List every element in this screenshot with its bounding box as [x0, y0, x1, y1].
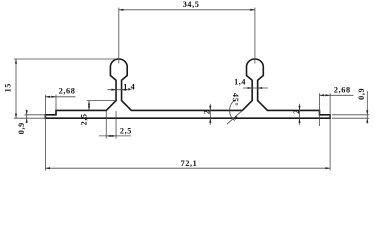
arrow 2,5 vertical top — [88, 101, 90, 106]
arrow 2 right top (outside) — [298, 106, 300, 111]
dim 34,5 extension lines — [118, 8, 120, 64]
svg-text:34,5: 34,5 — [183, 0, 200, 9]
arrow 1,4 left b (outside) — [122, 89, 127, 91]
arrow 2,5 vertical bottom — [88, 106, 90, 111]
arrow 45deg arc end — [235, 116, 238, 121]
svg-text:72,1: 72,1 — [181, 159, 198, 168]
svg-text:2,68: 2,68 — [59, 86, 76, 95]
svg-text:2,5: 2,5 — [120, 127, 132, 136]
arrow 2 left top (outside) — [209, 106, 211, 111]
profile outline (T-bar cross-section with two bulb stems) — [45, 59, 330, 118]
arrow 1,4 left a (outside) — [111, 89, 116, 91]
arrow 0,9 right bottom (outside) — [366, 118, 368, 123]
dim 2,68 left line — [45, 96, 75, 98]
arrow 34,5 right — [250, 9, 255, 11]
svg-text:0,9: 0,9 — [357, 88, 366, 100]
dim 15 line — [15, 59, 17, 118]
dim 34,5 line — [119, 9, 255, 11]
svg-text:1,4: 1,4 — [234, 78, 246, 87]
arrow 1,4 right b (outside) — [258, 87, 263, 89]
arrow 1,4 right a (outside) — [248, 87, 253, 89]
dim 2 right line — [299, 104, 301, 125]
arrow 15 bottom — [15, 114, 17, 119]
dim 2 left line — [209, 104, 211, 125]
dim 2,5 horizontal line — [99, 135, 131, 137]
dim 2,5 horizontal extension lines — [105, 111, 107, 139]
arrow 15 top — [15, 59, 17, 64]
dim 2,5 vertical line — [88, 101, 90, 111]
dim 15 extension lines — [14, 58, 117, 60]
arrow 72,1 left — [45, 167, 50, 169]
dim 45deg arc — [230, 100, 235, 121]
arrow 0,9 left bottom (outside) — [26, 118, 28, 123]
dim 72,1 extension lines — [44, 95, 46, 171]
dim 0,9 right extension lines — [332, 114, 369, 116]
dim 2,68 right extension lines — [319, 93, 321, 126]
arrow 2,68 left b — [51, 96, 56, 98]
arrow 2,68 right b — [326, 94, 331, 96]
arrow 34,5 left — [119, 9, 124, 11]
dim 0,9 left line — [26, 110, 28, 124]
svg-text:15: 15 — [4, 83, 13, 92]
arrow 0,9 right top (outside) — [366, 110, 368, 115]
dim 72,1 line — [45, 167, 330, 169]
svg-text:2,68: 2,68 — [334, 86, 351, 95]
svg-text:2: 2 — [292, 109, 301, 114]
dim 0,9 right line — [366, 91, 368, 124]
arrow 0,9 left top (outside) — [26, 110, 28, 115]
dim 45deg extended diagonal — [227, 110, 242, 124]
svg-text:45°: 45° — [230, 93, 240, 107]
dim 1,4 right line — [243, 87, 268, 89]
arrow 2,68 left a — [45, 96, 50, 98]
svg-text:0,9: 0,9 — [17, 122, 26, 134]
arrow 2 left bottom (outside) — [209, 118, 211, 123]
dim 0,9 left extension line — [25, 114, 46, 116]
dim 1,4 left line — [108, 89, 132, 91]
arrow 2 right bottom (outside) — [298, 118, 300, 123]
dim 2,68 right line — [320, 94, 354, 96]
svg-text:2: 2 — [202, 110, 211, 115]
arrow 72,1 right — [326, 167, 331, 169]
dim 2,68 left extension line — [55, 95, 57, 110]
arrow 2,68 right a — [320, 94, 325, 96]
arrow 2,5 horizontal left (outside) — [106, 135, 111, 137]
arrow 2,5 horizontal right (outside) — [111, 135, 116, 137]
svg-text:2,5: 2,5 — [80, 113, 89, 125]
dim 2,5 vertical extension line — [87, 100, 115, 102]
svg-text:1,4: 1,4 — [123, 82, 135, 91]
